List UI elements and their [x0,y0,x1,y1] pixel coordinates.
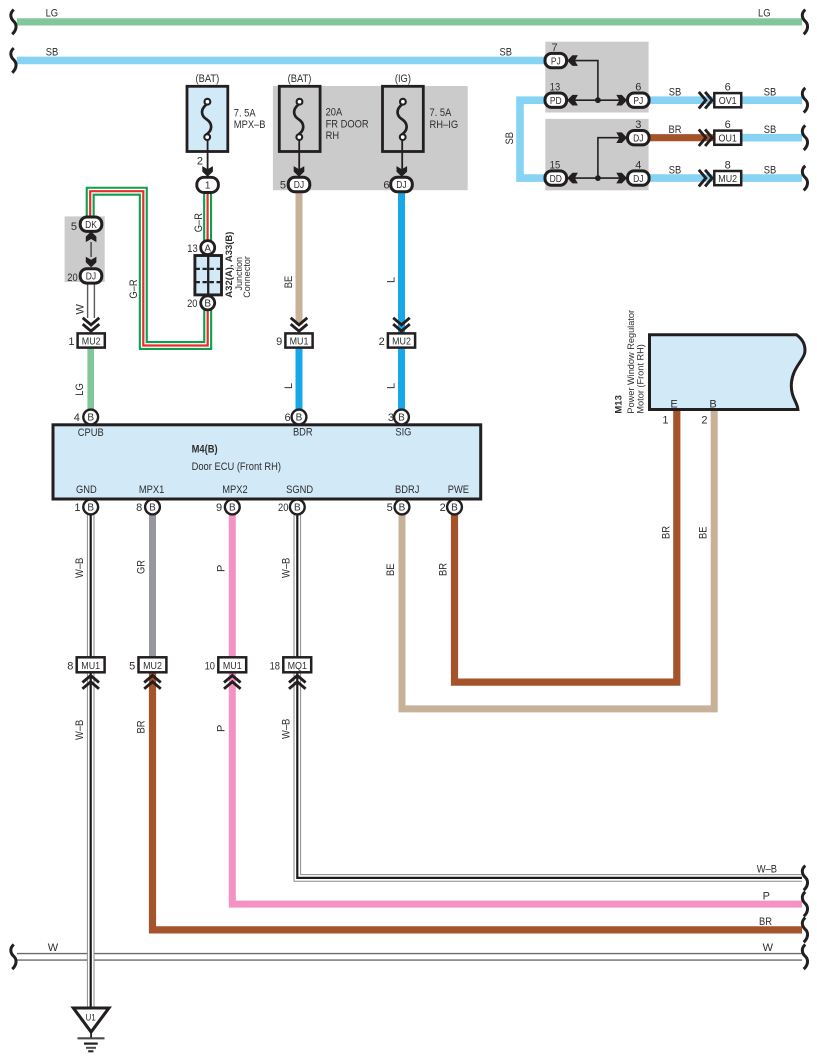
break LG left [11,10,16,35]
svg-text:2: 2 [701,415,707,427]
break BR right [802,918,807,943]
wire L below MU1(9) to BDR [296,348,303,409]
wire SB OU1 to right edge [741,134,802,142]
svg-text:1: 1 [662,415,668,427]
svg-text:SGND: SGND [286,484,313,496]
svg-text:9: 9 [276,336,282,348]
svg-text:MU2: MU2 [82,335,101,347]
svg-text:MQ1: MQ1 [288,660,308,672]
connector oval DJ pin3 [628,131,650,145]
svg-text:B: B [399,503,406,514]
svg-text:SB: SB [764,87,777,99]
svg-text:(BAT): (BAT) [196,73,220,85]
svg-text:SB: SB [669,165,682,177]
svg-text:E: E [670,399,677,411]
wire SB bus top [17,57,545,65]
svg-text:P: P [215,565,227,572]
SECTION-JUNCTION [187,232,252,310]
connector box MU2 pin5 [139,657,167,672]
svg-text:BDRJ: BDRJ [395,484,419,496]
svg-text:13: 13 [550,82,560,94]
svg-text:5: 5 [387,502,393,514]
svg-text:(BAT): (BAT) [288,73,312,85]
connector oval A pin13 [201,241,215,255]
svg-text:B: B [451,503,458,514]
connector box MU2 pin8 [714,171,741,185]
wire GR MPX1 down [149,515,156,657]
connector oval PD pin13 [545,93,567,107]
connector panel DK/DJ [65,216,105,282]
junction connector A32(A),A33(B) [195,256,222,295]
wire SB vertical link PD-DD [520,100,545,178]
svg-text:(IG): (IG) [395,73,411,85]
svg-text:7. 5A: 7. 5A [234,108,256,120]
connector box MU1 pin9 [285,333,312,347]
svg-text:6: 6 [383,179,389,191]
SECTION-ECU [53,410,481,515]
svg-text:Power Window Regulator: Power Window Regulator [626,310,636,414]
svg-text:B: B [229,503,236,514]
svg-text:4: 4 [74,412,80,424]
svg-text:SB: SB [46,47,59,59]
connector oval DJ pin20 [80,269,102,283]
svg-text:Connector: Connector [242,256,252,298]
pin B4 CPUB [83,410,98,425]
svg-text:MPX2: MPX2 [222,484,248,496]
pin B3 SIG [394,410,409,425]
break LG right [802,10,807,35]
SECTION-CONNROW2 [67,657,311,689]
link DD15 to DJ4 and DJ3 [567,138,628,178]
svg-text:BE: BE [283,276,295,289]
svg-text:L: L [283,383,295,389]
wire L below MU2(2) to SIG [398,348,405,409]
break W right [802,945,807,970]
svg-text:L: L [386,277,398,283]
svg-text:PJ: PJ [551,56,561,67]
pin B9 MPX2 [225,500,240,515]
connector oval DD pin15 [545,171,567,185]
svg-text:8: 8 [725,159,731,171]
svg-text:L: L [386,383,398,389]
svg-text:G–R: G–R [193,213,205,232]
svg-text:BE: BE [385,564,397,577]
connector oval 1 [197,177,219,192]
svg-text:6: 6 [725,82,731,94]
SECTION-GROUND [73,1008,109,1051]
SECTION-CONNROW1 [68,318,415,348]
relay box panel lower right [545,119,648,190]
svg-text:LG: LG [758,8,771,20]
wire SB DJ4 to MU2 [649,174,714,182]
svg-text:W: W [48,942,59,954]
svg-text:BR: BR [759,916,772,928]
svg-text:DJ: DJ [86,272,96,283]
fuse (BAT) 7.5A MPX-B [187,73,266,193]
break P right [802,892,807,917]
pin B8 MPX1 [145,500,160,515]
wire BE BDRJ to M13 pin B [402,411,714,709]
svg-text:3: 3 [635,119,641,131]
svg-text:DK: DK [85,220,97,231]
svg-text:MU2: MU2 [718,173,737,185]
break SB right row2 [802,125,807,150]
connector oval PJ pin6 [628,93,650,107]
svg-text:1: 1 [205,181,211,192]
pin B20 SGND [290,500,305,515]
svg-text:OU1: OU1 [719,133,738,145]
break W left [11,945,16,970]
junction dot upper [595,97,601,103]
svg-text:2: 2 [197,156,203,168]
svg-text:BR: BR [660,526,672,539]
svg-text:8: 8 [67,661,73,673]
chevrons above MU1(9) [291,318,308,331]
svg-text:SB: SB [764,165,777,177]
break SB right row3 [802,166,807,191]
wire G-R junction B loop to DK [90,191,208,345]
svg-text:B: B [204,299,211,310]
svg-text:U1: U1 [85,1013,95,1024]
connector oval PJ pin7 [545,53,567,67]
svg-text:B: B [87,503,94,514]
connector box MQ1 pin18 [283,657,311,672]
connector box OU1 pin6 [714,131,741,145]
svg-text:8: 8 [136,502,142,514]
svg-text:FR DOOR: FR DOOR [326,119,369,131]
svg-text:5: 5 [71,221,77,233]
ground U1 [73,1008,109,1032]
wire SB OV1 to right edge [741,96,802,104]
svg-text:20: 20 [278,502,288,514]
svg-text:6: 6 [635,82,641,94]
M13 Power Window Regulator Motor [650,335,805,410]
svg-text:MU2: MU2 [392,335,411,347]
wire P below MU1(10) to bottom right [232,673,802,905]
wire G-R fuse1 to junction A [203,194,212,242]
wire W-B SGND down [293,515,301,657]
SECTION-FUSES [187,73,458,193]
svg-text:PD: PD [550,96,562,107]
connector box MU1 pin8 [77,657,105,672]
wire fuse3 to DJ6 [401,140,403,172]
svg-text:G–R: G–R [128,279,140,298]
pin B5 BDRJ [395,500,410,515]
svg-text:5: 5 [129,661,135,673]
pin B2 PWE [447,500,462,515]
break SB left [11,48,16,73]
svg-text:9: 9 [216,502,222,514]
wire W horizontal bottom [17,953,802,961]
svg-text:W: W [763,942,774,954]
svg-text:W–B: W–B [280,558,292,578]
svg-text:B: B [87,413,94,424]
break SB right row1 [802,88,807,113]
svg-text:MU1: MU1 [223,660,242,672]
wire LG bus top [17,18,802,25]
svg-text:2: 2 [440,502,446,514]
connector box MU1 pin10 [218,657,246,672]
fuse block panel [273,86,468,190]
svg-text:18: 18 [270,661,280,673]
break W-B right [802,866,807,891]
svg-text:DD: DD [550,174,562,185]
connector oval DK pin5 [80,217,102,231]
svg-text:SIG: SIG [395,426,411,438]
svg-text:5: 5 [280,179,286,191]
svg-text:BE: BE [698,527,710,540]
SECTION-M13 [613,310,805,427]
relay box panel upper right [545,42,648,113]
svg-text:M4(B): M4(B) [192,443,218,455]
svg-text:20A: 20A [326,107,343,119]
svg-text:B: B [296,413,303,424]
svg-text:P: P [215,725,227,732]
connector box MU2 pin1 [78,333,105,347]
junction dot lower [595,175,601,181]
chevrons above MU2(2) [393,318,410,331]
svg-text:B: B [398,413,405,424]
wire L fuse DJ6 down [398,192,405,334]
pin B1 GND [83,500,98,515]
svg-text:LG: LG [74,383,86,396]
connector oval DJ pin5 [288,177,310,191]
SECTION-LABELS [46,8,777,954]
pin B6 BDR [292,410,307,425]
svg-text:DJ: DJ [396,180,406,191]
svg-text:MU2: MU2 [143,660,162,672]
svg-text:SB: SB [764,124,777,136]
svg-text:DJ: DJ [633,174,643,185]
svg-text:Door ECU (Front RH): Door ECU (Front RH) [192,461,281,473]
svg-text:M13: M13 [613,395,624,413]
svg-text:20: 20 [187,298,197,310]
wire W-B below MQ1 to bottom right [297,673,802,878]
chevrons above MU2(1) [83,318,100,331]
connector oval DJ pin4 [628,171,650,185]
svg-text:BR: BR [438,563,450,576]
svg-text:SB: SB [500,46,513,58]
wire BR below MU2(5) to bottom right [153,673,803,930]
svg-text:LG: LG [46,8,59,20]
svg-text:OV1: OV1 [719,95,737,107]
svg-text:2: 2 [379,336,385,348]
svg-text:MPX1: MPX1 [139,484,165,496]
svg-text:W–B: W–B [757,864,777,876]
SECTION-RIGHTNET [545,42,741,186]
svg-text:DJ: DJ [294,180,304,191]
svg-text:MPX–B: MPX–B [234,119,266,131]
link PJ7 to bus junction [567,61,628,101]
svg-text:20: 20 [67,272,77,284]
wire SB MU2 to right edge [741,174,802,182]
svg-text:A: A [204,243,211,254]
wire P MPX2 down [229,515,236,657]
connector oval B pin20 [201,296,215,310]
svg-text:10: 10 [205,661,215,673]
svg-text:MU1: MU1 [290,335,309,347]
wire fuse1 to connector 1 [207,140,209,172]
svg-text:SB: SB [669,87,682,99]
connector oval DJ pin6 [391,177,413,191]
svg-text:15: 15 [550,159,560,171]
svg-text:GR: GR [136,560,148,574]
connector box MU2 pin2 [388,333,415,347]
wire BE fuse DJ5 down [296,192,303,325]
svg-text:BR: BR [669,124,682,136]
svg-text:B: B [709,399,716,411]
svg-text:BR: BR [136,720,148,733]
svg-text:CPUB: CPUB [78,427,104,439]
svg-text:MU1: MU1 [81,660,100,672]
G-R striped wires [90,191,208,345]
svg-text:13: 13 [187,243,197,255]
svg-text:4: 4 [635,159,641,171]
wire SB PJ6 to OV1 [649,96,714,104]
svg-text:W: W [75,304,87,315]
wire LG below MU2(1) to CPUB [87,348,94,409]
svg-text:P: P [763,891,770,903]
svg-text:DJ: DJ [633,133,643,144]
fuse (BAT) 20A FR DOOR RH [279,73,368,192]
svg-text:1: 1 [68,336,74,348]
svg-text:B: B [294,503,301,514]
svg-text:1: 1 [74,502,80,514]
svg-text:W–B: W–B [280,719,292,739]
wire W-B GND to ground U1 [87,515,95,1008]
chevrons to OV1 [699,92,712,109]
svg-text:PJ: PJ [633,96,643,107]
fuse (IG) 7.5A RH-IG [383,73,459,192]
wire fuse2 to DJ5 [298,140,300,172]
svg-text:6: 6 [725,119,731,131]
svg-text:PWE: PWE [448,484,469,496]
connector box OV1 pin6 [714,93,741,107]
white striped wires [17,283,802,1008]
svg-text:GND: GND [76,484,97,496]
svg-text:6: 6 [284,412,290,424]
svg-text:7: 7 [551,42,557,54]
svg-text:RH: RH [326,130,340,142]
svg-text:Motor (Front RH): Motor (Front RH) [636,344,646,413]
Door ECU M4(B) [53,425,481,499]
svg-text:W–B: W–B [74,558,86,578]
wire BR DJ3 to OU1 [649,134,714,141]
mating arrows DK-DJ [86,231,97,242]
svg-text:BDR: BDR [293,426,313,438]
svg-text:W–B: W–B [74,720,86,740]
svg-text:3: 3 [388,412,394,424]
svg-text:B: B [149,503,156,514]
wire BR PWE to M13 pin E [455,411,677,682]
svg-text:SB: SB [504,132,516,145]
svg-text:RH–IG: RH–IG [430,119,459,131]
SECTION-DKDJ [67,217,102,284]
svg-text:7. 5A: 7. 5A [430,107,452,119]
wire W DJ20 to MU2 [87,283,95,318]
